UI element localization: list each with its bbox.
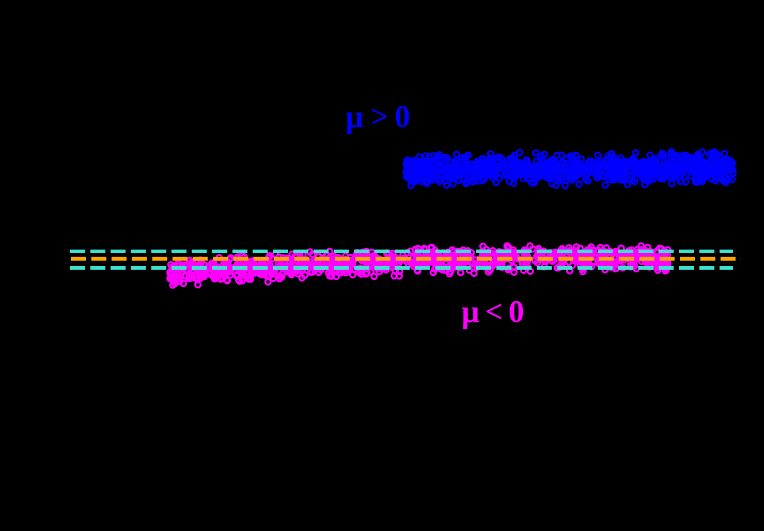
svg-text:μ>0: μ>0 — [346, 99, 411, 134]
svg-text:μ<0: μ<0 — [462, 294, 525, 329]
